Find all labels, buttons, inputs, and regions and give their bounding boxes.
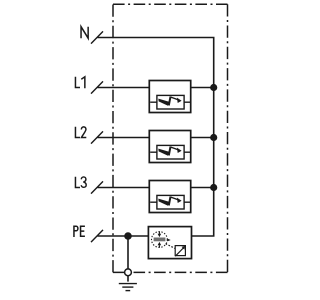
enclosure dash-dot border (113, 4, 228, 272)
surge arrester symbol L3 (150, 195, 190, 209)
wire PE (98, 235, 149, 237)
wire L2 right (191, 137, 214, 139)
surge arrester symbol L1 (150, 95, 190, 109)
junction dot PE/ground tap (124, 232, 132, 240)
PE terminal circle (125, 269, 132, 276)
terminal label N (81, 27, 88, 39)
surge arrester symbol L2 (150, 145, 190, 159)
wire N horizontal and right bus (98, 38, 214, 237)
wire L3 left (98, 187, 150, 189)
wire-break slash PE (91, 230, 103, 242)
wire L1 left (98, 87, 150, 89)
trigger connection dashed (166, 244, 176, 249)
ground lead (127, 276, 129, 282)
triggered spark gap symbol (152, 232, 171, 248)
SPD module L1 box (149, 81, 190, 113)
wire L2 left (98, 137, 150, 139)
terminal label L1 (75, 77, 84, 89)
wire L3 right (191, 187, 214, 189)
wire-break slash L1 (91, 81, 103, 93)
wire-break slash L3 (91, 181, 103, 193)
SPD module L3 box (149, 181, 190, 213)
junction dot L3/bus (210, 184, 217, 191)
junction dot L2/bus (210, 134, 217, 141)
trigger unit box with arrow (175, 246, 185, 257)
ground symbol (119, 284, 137, 291)
N-PE spark gap module box (148, 227, 191, 259)
ground tap wire (127, 236, 129, 269)
terminal label L3 (75, 177, 86, 188)
junction dot L1/bus (210, 84, 217, 91)
wire-break slash N (91, 31, 103, 43)
terminal label L2 (75, 127, 86, 138)
terminal label PE (74, 226, 85, 237)
wire L1 right (191, 87, 214, 89)
wire-break slash L2 (91, 131, 103, 143)
SPD module L2 box (149, 131, 190, 163)
